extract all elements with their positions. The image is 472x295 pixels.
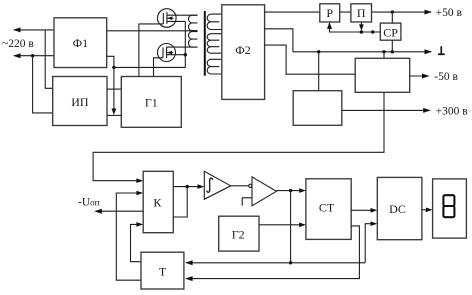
node junction dot xyxy=(382,50,385,53)
wire IP to G1 lower xyxy=(107,114,121,116)
block F1 xyxy=(54,18,107,68)
wire 220v top line xyxy=(14,29,54,31)
digit 8 xyxy=(443,195,454,206)
svg-text:DC: DC xyxy=(389,202,406,216)
arrow into integrator xyxy=(198,184,205,189)
arrow left bottom xyxy=(13,53,21,58)
svg-text:-Uоп: -Uоп xyxy=(78,197,100,209)
node junction dot xyxy=(391,10,394,13)
svg-text:Р: Р xyxy=(326,6,333,20)
op-amp integrator xyxy=(204,171,230,199)
block P xyxy=(351,4,372,22)
node junction dot xyxy=(391,50,394,53)
ground symbol xyxy=(438,46,445,54)
wire source vertical xyxy=(184,21,186,67)
block K xyxy=(143,171,173,232)
arrow -50v xyxy=(422,74,429,79)
transistor VT2 xyxy=(158,44,198,62)
block +300 rectifier xyxy=(293,91,342,126)
block CT xyxy=(306,179,351,240)
transformer core xyxy=(204,11,206,76)
block SR xyxy=(380,23,401,40)
svg-text:Т: Т xyxy=(159,265,167,279)
wire -Uop xyxy=(96,210,144,212)
svg-text:Ф2: Ф2 xyxy=(235,43,250,57)
node junction dot xyxy=(31,54,34,57)
node junction dot xyxy=(184,53,187,56)
wire comparator out to CT xyxy=(276,190,303,192)
wire comparator branch to T input1 xyxy=(186,262,365,264)
block G1 xyxy=(121,77,181,128)
arrow down into wire xyxy=(112,109,117,116)
svg-text:СР: СР xyxy=(383,25,398,39)
indicator display xyxy=(433,179,467,238)
block F2 xyxy=(222,5,265,100)
arrow left top xyxy=(13,27,21,32)
svg-text:ИП: ИП xyxy=(71,95,89,109)
block G2 xyxy=(219,216,259,251)
svg-text:~220 в: ~220 в xyxy=(2,38,34,50)
wire ground rail xyxy=(293,51,431,53)
wire P bottom down xyxy=(360,22,362,26)
wire up to DC input2 xyxy=(365,224,375,263)
svg-text:К: К xyxy=(153,195,162,209)
wire integrator to comparator xyxy=(231,185,249,187)
arrow up into R xyxy=(327,22,332,29)
node junction dot xyxy=(289,189,292,192)
arrow into DC input2 xyxy=(371,221,378,226)
wire IP to G1 upper xyxy=(107,88,121,90)
node junction dot xyxy=(289,261,292,264)
svg-text:+300 в: +300 в xyxy=(436,106,469,118)
arrow +50v xyxy=(425,10,432,15)
node junction dot xyxy=(371,30,374,33)
wire to IP input 2 xyxy=(33,56,53,113)
wire F2 to -50 block xyxy=(265,45,356,74)
svg-text:П: П xyxy=(357,6,366,20)
wire source return rail xyxy=(114,66,185,68)
inverting input circle xyxy=(249,184,252,187)
arrow into CT input1 xyxy=(299,188,306,193)
block DC xyxy=(377,177,422,239)
wire VT2 gate xyxy=(154,58,164,77)
svg-text:Ф1: Ф1 xyxy=(73,36,88,50)
wire DC to indicator xyxy=(422,209,430,211)
svg-text:+50 в: +50 в xyxy=(436,7,463,19)
wire G2 to CT xyxy=(259,224,304,226)
arrow into CT input2 xyxy=(299,223,306,228)
arrow into K input3 xyxy=(136,222,143,227)
arrow into K input2 xyxy=(136,191,143,196)
wire VT1 gate xyxy=(139,24,163,77)
arrow -Uop left xyxy=(94,209,101,214)
wire feedback SR to R xyxy=(330,23,381,32)
wire F1 lower output down to G1 input wire xyxy=(107,56,114,112)
comparator xyxy=(252,177,276,206)
wire SR bottom to ground xyxy=(391,40,393,52)
wire ground to +300 block xyxy=(318,52,320,91)
wire K out to integrator xyxy=(173,186,202,188)
wire CT to DC xyxy=(351,209,375,211)
arrow into DC xyxy=(371,208,378,213)
arrow into T input1 xyxy=(185,260,192,265)
transformer secondary winding 2 xyxy=(207,34,222,54)
wire T to K input2 xyxy=(116,193,141,280)
node junction dot xyxy=(112,66,115,69)
wire ground to -50 block xyxy=(383,52,385,59)
svg-text:Г2: Г2 xyxy=(232,228,245,242)
wire F2 to ground rail xyxy=(265,29,293,52)
node junction dot xyxy=(317,50,320,53)
wire comparator branch down xyxy=(290,191,292,263)
wire +300v out xyxy=(342,109,430,111)
svg-text:-50 в: -50 в xyxy=(434,71,458,83)
arrow into T input2 xyxy=(185,276,192,281)
block R xyxy=(320,4,340,22)
transformer secondary winding 1 xyxy=(207,14,222,29)
node junction dot xyxy=(186,185,189,188)
arrow down from P xyxy=(359,24,364,30)
arrow into indicator xyxy=(426,208,433,213)
wire CT to T input2 xyxy=(186,226,359,279)
arrow +300v xyxy=(423,108,430,113)
wire long feedback from -50 block to K xyxy=(93,92,384,180)
wire K loop back xyxy=(173,187,187,217)
transistor VT1 xyxy=(158,9,198,28)
pulse input symbol xyxy=(242,198,252,206)
transformer T1 primary xyxy=(188,15,197,47)
wire SR top to +50 rail xyxy=(391,12,393,23)
arrow into K input1 xyxy=(136,178,143,183)
block -50 stabilizer xyxy=(355,58,410,92)
arrow ground xyxy=(425,49,432,54)
wire -50v out xyxy=(410,75,429,77)
block IP xyxy=(53,77,107,126)
wire F1 center tap to transformer xyxy=(107,30,198,32)
svg-text:CT: CT xyxy=(319,200,335,214)
wire T to K input3 xyxy=(131,224,142,261)
wire to IP input 1 xyxy=(45,30,53,88)
wire +50v rail xyxy=(265,11,320,13)
wire 220v bottom line xyxy=(14,55,54,57)
transformer secondary winding 3 xyxy=(207,59,222,74)
node junction dot xyxy=(360,30,363,33)
svg-text:Г1: Г1 xyxy=(145,95,158,109)
block T xyxy=(141,252,184,289)
